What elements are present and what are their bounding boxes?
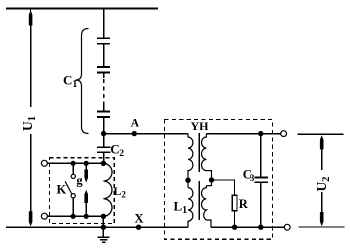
- label K: [57, 183, 67, 197]
- resistor R: [232, 195, 237, 210]
- dashed box (K,g arrester unit): [49, 158, 114, 224]
- U1 dimension arrow bottom: [29, 134, 33, 226]
- wire external bottom right: [299, 226, 345, 228]
- dashed box YH (voltage transformer): [164, 120, 272, 240]
- spark gap g: [84, 163, 88, 216]
- svg-text:YH: YH: [191, 119, 210, 133]
- node secondary tap: [209, 177, 214, 182]
- node L1 mid tap: [185, 178, 190, 183]
- wire secondary top lead: [206, 133, 281, 135]
- label R: [239, 197, 249, 211]
- wire bottom bus line: [6, 226, 188, 228]
- node C3 bottom: [258, 225, 263, 230]
- wire top bus line: [6, 8, 158, 10]
- label C2: [110, 142, 124, 160]
- winding secondary lower: [202, 186, 212, 228]
- svg-text:C1: C1: [63, 73, 77, 91]
- svg-text:K: K: [57, 183, 67, 197]
- label X: [135, 211, 144, 225]
- svg-text:g: g: [76, 173, 83, 187]
- capacitor C3: [255, 134, 269, 228]
- switch K: [65, 163, 75, 216]
- U1 dimension arrow top: [29, 10, 33, 108]
- svg-text:C2: C2: [110, 142, 124, 160]
- node L2 top: [101, 161, 106, 166]
- wire inner top line: [47, 162, 103, 164]
- terminal circle top right: [281, 131, 287, 137]
- winding L1 primary lower: [188, 188, 193, 228]
- label g: [76, 173, 83, 187]
- svg-text:L1: L1: [174, 199, 188, 217]
- U2 dimension arrow top: [320, 135, 324, 170]
- svg-text:U1: U1: [20, 116, 38, 131]
- node g bottom: [84, 214, 89, 219]
- label L2: [113, 184, 126, 199]
- svg-text:X: X: [135, 211, 144, 225]
- capacitor C1 (series stack): [97, 9, 110, 134]
- node top right rail: [258, 131, 263, 136]
- node K top: [71, 161, 76, 166]
- ground: [98, 227, 110, 242]
- svg-text:R: R: [239, 197, 249, 211]
- wire inner bottom line: [47, 215, 103, 217]
- label U1: [20, 116, 38, 131]
- node under C1: [101, 131, 106, 136]
- terminal circle bottom right: [284, 224, 290, 230]
- svg-text:U2: U2: [314, 177, 332, 192]
- winding secondary upper: [201, 134, 211, 186]
- wire L2 to bottom bus: [102, 216, 104, 227]
- winding L1 primary upper: [188, 134, 193, 188]
- node A: [132, 131, 137, 136]
- svg-text:A: A: [131, 118, 140, 130]
- capacitor C2: [97, 134, 111, 164]
- label C1: [63, 73, 77, 91]
- inductor L2: [103, 163, 112, 216]
- wire external top right: [298, 133, 344, 135]
- node R bottom: [232, 225, 237, 230]
- label U2: [314, 177, 332, 192]
- node X: [136, 225, 141, 230]
- node g top: [84, 161, 89, 166]
- node L2 bottom: [101, 214, 106, 219]
- terminal circle top-left: [41, 160, 47, 166]
- C1 brace: [76, 29, 89, 134]
- label C3: [243, 168, 255, 184]
- U2 dimension arrow bottom: [320, 192, 324, 226]
- label L1: [174, 199, 188, 217]
- svg-text:C3: C3: [243, 168, 255, 184]
- wire tap to R: [212, 180, 235, 195]
- svg-text:L2: L2: [113, 184, 126, 199]
- wire node line A (y=133.6): [104, 133, 188, 135]
- transformer core: [198, 133, 200, 220]
- label A: [131, 118, 140, 130]
- label YH: [191, 119, 210, 133]
- node at bottom bus: [101, 225, 106, 230]
- node K bottom: [71, 214, 76, 219]
- wire secondary bottom rail: [211, 226, 285, 228]
- terminal circle bottom-left: [41, 213, 47, 219]
